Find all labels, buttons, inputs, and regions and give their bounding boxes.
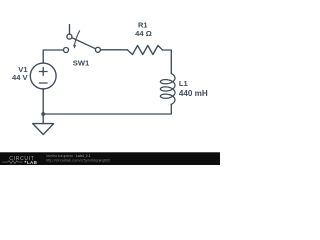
ground (33, 124, 54, 135)
switch arrow head (73, 45, 76, 49)
svg-text:L1: L1 (179, 79, 189, 88)
wire V1 bottom (42, 89, 44, 114)
V1 plus sign (39, 68, 47, 76)
switch SW1 top terminal (67, 34, 72, 39)
junction node (41, 112, 45, 116)
resistor R1 (128, 46, 163, 55)
switch SW1 top stub (69, 25, 71, 35)
svg-text:44 Ω: 44 Ω (135, 29, 152, 38)
wire V1 top to switch (43, 50, 63, 63)
CircuitLab logo resistor squiggle (2, 161, 22, 164)
wire R1 to L1 (163, 50, 172, 73)
svg-text:SW1: SW1 (73, 59, 90, 68)
voltage source V1 (30, 63, 56, 89)
switch SW1 blade (72, 38, 96, 49)
switch SW1 right terminal (95, 47, 100, 52)
svg-text:440 mH: 440 mH (179, 89, 208, 98)
svg-text:LAB: LAB (27, 160, 38, 165)
wire to ground (42, 114, 44, 124)
svg-text:http://circuitlab.com/c/5ym9dq: http://circuitlab.com/c/5ym9dqqkqt62/ (46, 157, 111, 162)
wire switch to R1 (100, 49, 127, 51)
switch SW1 arrow (75, 31, 80, 46)
CircuitLab logo bolt dot (25, 161, 27, 163)
watermark bar (0, 152, 220, 165)
inductor L1 coil (160, 74, 175, 105)
wire bottom rail (43, 113, 171, 115)
V1 minus sign (39, 82, 47, 84)
switch SW1 left terminal (64, 48, 69, 53)
wire L1 bottom (170, 104, 172, 114)
svg-text:44 V: 44 V (12, 73, 29, 82)
